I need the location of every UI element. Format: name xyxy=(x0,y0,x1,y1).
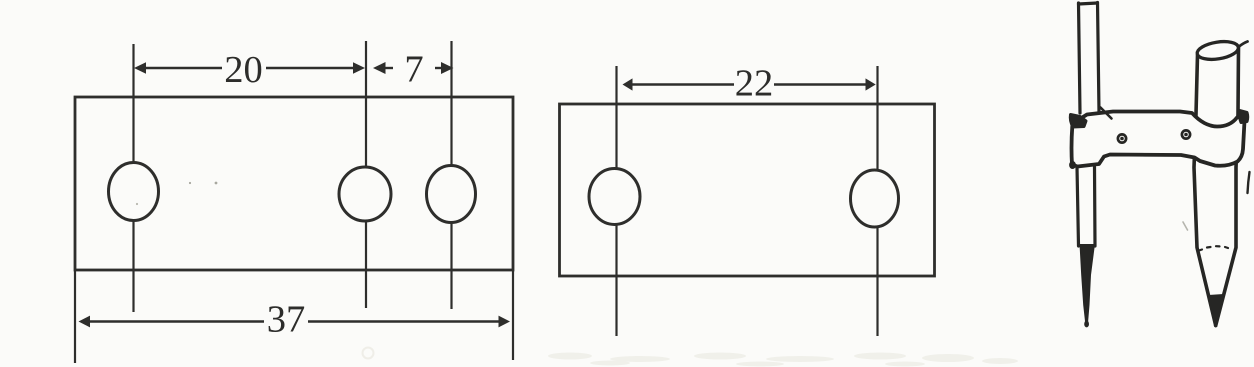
svg-text:7: 7 xyxy=(404,49,423,91)
svg-text:37: 37 xyxy=(267,299,306,341)
svg-text:20: 20 xyxy=(224,49,263,91)
svg-text:22: 22 xyxy=(735,63,774,105)
